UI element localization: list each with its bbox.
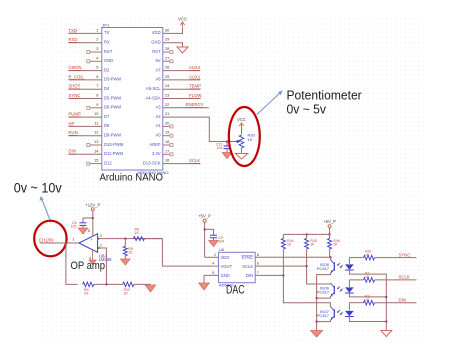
svg-text:D2: D2 <box>104 67 110 72</box>
svg-text:HP: HP <box>68 121 74 126</box>
svg-text:12: 12 <box>94 130 98 135</box>
resistor R46 1K vertical <box>328 234 340 257</box>
DAC pin 5 GND <box>204 270 230 283</box>
wire pin 12 net RUN <box>68 130 121 138</box>
wire pin 21 A2 to potentiometer wiper <box>155 111 234 141</box>
svg-text:16: 16 <box>165 158 169 163</box>
black label Arduino NANO <box>100 173 164 184</box>
wire pin 25 net AUX1 <box>155 74 200 82</box>
net label SCLK right <box>375 275 417 280</box>
wire R5 to DAC VOUT <box>144 239 213 267</box>
resistor R8 1K <box>364 294 375 305</box>
svg-text:+5V_P: +5V_P <box>198 214 211 219</box>
DAC pin 8 SYNC wire <box>242 252 331 260</box>
black label OP amp <box>71 260 106 272</box>
svg-text:R_COIL: R_COIL <box>68 74 84 79</box>
black label DAC <box>226 282 245 296</box>
svg-text:17: 17 <box>165 148 169 153</box>
no-connect pin 19 A0 <box>155 130 173 138</box>
wire pin 2 net RXD <box>68 37 110 45</box>
svg-text:26: 26 <box>165 65 169 70</box>
svg-text:D6-PWM: D6-PWM <box>104 105 121 110</box>
wire pin 16 net SCLK <box>143 158 200 166</box>
pin 3 noninverting input wire <box>98 233 163 239</box>
wire pin 22 net ENERGY <box>155 102 208 110</box>
no-connect pin 27 5V <box>155 55 173 63</box>
junction C21 tee on wiper wire <box>226 141 228 143</box>
svg-text:PC817: PC817 <box>317 313 330 318</box>
no-connect pin 3 RST <box>87 46 113 54</box>
wire LED cathode rail to ground <box>349 270 387 331</box>
svg-text:3: 3 <box>96 46 98 51</box>
wire pin 5 net CMON <box>68 65 110 73</box>
DAC pin 7 DIN wire <box>246 270 283 278</box>
svg-text:1K: 1K <box>310 242 315 246</box>
svg-text:5: 5 <box>212 270 214 275</box>
no-connect pin 18 AREF <box>149 139 173 147</box>
svg-text:1K: 1K <box>365 275 370 279</box>
net label CH1/IN with output wire <box>39 237 79 243</box>
op-amp U8A LM358 <box>79 229 112 262</box>
red ellipse highlight around potentiometer <box>229 107 260 166</box>
svg-text:DIN: DIN <box>68 149 75 154</box>
svg-text:PUMP: PUMP <box>68 112 81 117</box>
black label 0v ~ 10v <box>14 181 62 196</box>
svg-text:DIN: DIN <box>399 297 406 302</box>
resistor R7 1K <box>364 272 375 283</box>
svg-text:D4: D4 <box>104 86 110 91</box>
junction C9 tee on +5V wire <box>204 228 206 230</box>
svg-text:13: 13 <box>94 139 98 144</box>
wire +5V bus <box>283 233 330 235</box>
wire LED3 anode to R8 row <box>349 303 363 311</box>
no-connect pin 13 D10-PWM <box>87 139 124 147</box>
svg-text:DIN: DIN <box>246 273 253 278</box>
wire pin 26 net AUX2 <box>155 65 200 73</box>
svg-text:+: + <box>91 237 94 242</box>
LED of ISO7 <box>345 311 354 317</box>
wire pin 24 net TEMP <box>146 83 201 91</box>
svg-text:8: 8 <box>96 93 98 98</box>
svg-text:1K: 1K <box>287 242 292 246</box>
LED of ISO6 <box>345 287 354 293</box>
svg-text:1: 1 <box>72 237 74 242</box>
DAC pin 6 SCLK wire <box>242 261 306 269</box>
resistor R44 1K vertical <box>281 234 293 275</box>
svg-text:1: 1 <box>214 252 216 257</box>
svg-text:6: 6 <box>257 261 259 266</box>
wire pin 1 net TXD <box>68 27 109 35</box>
svg-text:RX: RX <box>104 40 110 45</box>
wire pin 8 net SYNC <box>68 93 121 101</box>
DAC pin 4 VOUT <box>212 261 232 269</box>
svg-text:3.3V: 3.3V <box>152 151 161 156</box>
svg-text:28: 28 <box>165 46 169 51</box>
svg-text:AREF: AREF <box>149 142 161 147</box>
svg-text:SYNC: SYNC <box>242 255 254 260</box>
IC U6 AD5310 DAC body <box>219 247 256 288</box>
svg-text:D11-PWM: D11-PWM <box>104 151 124 156</box>
ground at pin 29 GND <box>151 37 188 53</box>
wire LED2 anode to R7 row <box>349 280 363 287</box>
svg-text:SHOT: SHOT <box>68 84 80 89</box>
wire pin 7 net SHOT <box>68 83 110 91</box>
svg-text:VDD: VDD <box>152 30 161 35</box>
capacitor C8 105 <box>71 218 93 229</box>
svg-text:2: 2 <box>100 243 102 248</box>
no-connect pin 4 GND <box>87 55 114 63</box>
svg-text:GND: GND <box>104 58 113 63</box>
svg-text:8: 8 <box>88 229 90 233</box>
black label Potentiometer 0v ~ 5v <box>287 88 363 117</box>
ground below R6 <box>121 259 131 265</box>
red circle highlight around CH1/IN <box>34 221 66 257</box>
resistor R41 1K <box>364 249 375 260</box>
svg-text:D9-PWM: D9-PWM <box>104 133 121 138</box>
ground below C21 <box>222 153 232 159</box>
svg-text:RST: RST <box>152 49 161 54</box>
svg-text:19: 19 <box>165 130 169 135</box>
svg-text:D8: D8 <box>104 123 110 128</box>
svg-text:A4-SDA: A4-SDA <box>145 95 160 100</box>
svg-text:7: 7 <box>96 83 98 88</box>
svg-text:105: 105 <box>71 225 77 229</box>
svg-text:D13-SCK: D13-SCK <box>143 160 161 165</box>
svg-text:RUN: RUN <box>68 130 77 135</box>
svg-text:1K: 1K <box>365 298 370 302</box>
svg-text:1K: 1K <box>365 253 370 257</box>
ground LED cathode rail <box>381 331 392 337</box>
svg-text:A2: A2 <box>155 114 161 119</box>
svg-text:5V: 5V <box>155 58 160 63</box>
junction R44 DIN node <box>282 274 284 276</box>
svg-text:D5-PWM: D5-PWM <box>104 95 121 100</box>
optocoupler ISO6 PC817 <box>317 283 343 297</box>
junction R45 SCLK node <box>306 265 308 267</box>
LED of ISO5 <box>345 264 354 270</box>
optocoupler ISO7 PC817 <box>317 307 343 321</box>
svg-text:1K: 1K <box>135 231 140 235</box>
svg-text:A3: A3 <box>155 105 161 110</box>
blue annotation arrow from 0v~10v to CH1/IN <box>39 196 51 223</box>
svg-text:GND: GND <box>221 273 230 278</box>
junction R6 tee on pin3 wire <box>124 238 126 240</box>
svg-text:CMON: CMON <box>68 65 81 70</box>
svg-text:11: 11 <box>94 120 98 125</box>
svg-text:1K: 1K <box>128 251 133 255</box>
svg-text:0v ~ 5v: 0v ~ 5v <box>287 101 327 116</box>
svg-text:OP amp: OP amp <box>71 260 106 272</box>
wire SCLK to ISO6 collector <box>307 266 331 284</box>
svg-text:PC817: PC817 <box>317 266 330 271</box>
resistor R5 1K horizontal <box>133 228 144 241</box>
svg-text:Arduino NANO: Arduino NANO <box>100 173 164 184</box>
svg-text:RXD: RXD <box>68 37 77 42</box>
wire pin 10 net PUMP <box>68 111 110 119</box>
svg-text:PC817: PC817 <box>317 289 330 294</box>
net label DIN right <box>375 297 417 302</box>
svg-text:A0: A0 <box>155 133 161 138</box>
svg-text:27: 27 <box>165 55 169 60</box>
power +5V_P above pull-ups <box>323 219 336 234</box>
svg-text:TEMP: TEMP <box>189 84 201 89</box>
optocoupler ISO5 PC817 <box>317 260 343 274</box>
svg-text:SCLK: SCLK <box>399 275 410 280</box>
wire pin 11 net HP <box>68 120 110 128</box>
svg-text:FLOW: FLOW <box>189 93 202 98</box>
svg-text:1K: 1K <box>333 242 338 246</box>
DAC pin 1 VDD <box>205 252 230 260</box>
svg-text:2K: 2K <box>84 292 89 296</box>
svg-text:A7: A7 <box>155 67 161 72</box>
svg-text:DAC: DAC <box>226 282 245 296</box>
svg-text:A5-SCL: A5-SCL <box>146 86 161 91</box>
svg-text:23: 23 <box>165 93 169 98</box>
blue annotation arrow to Potentiometer text <box>257 90 283 114</box>
svg-text:A6: A6 <box>155 77 161 82</box>
svg-text:D7: D7 <box>104 114 110 119</box>
svg-text:+12V_P: +12V_P <box>85 202 100 207</box>
svg-text:SCLK: SCLK <box>189 158 200 163</box>
ground emitter rail <box>311 331 323 338</box>
svg-text:SYNC: SYNC <box>68 93 80 98</box>
wire pin 14 net DIN <box>68 148 123 156</box>
resistor R9 2K <box>83 282 94 296</box>
pin 2 inverting input wire <box>98 243 107 285</box>
svg-text:D3-PWM: D3-PWM <box>104 77 121 82</box>
wire pin 6 net R_COIL <box>68 74 121 82</box>
ground below R30 <box>235 148 248 159</box>
svg-text:A1: A1 <box>155 123 161 128</box>
svg-text:0v ~ 10v: 0v ~ 10v <box>14 181 62 196</box>
svg-text:6: 6 <box>96 74 98 79</box>
svg-text:8: 8 <box>257 252 259 257</box>
junction R46 SYNC collector node <box>330 256 332 259</box>
resistor R10 2K <box>123 282 134 296</box>
svg-text:SCLK: SCLK <box>242 264 253 269</box>
svg-text:5: 5 <box>96 65 98 70</box>
IC JP1 Arduino NANO body <box>102 22 169 175</box>
power VCC above R30 <box>237 117 246 135</box>
ground below DAC GND pin <box>199 283 210 290</box>
junction feedback tee on output wire <box>65 242 67 244</box>
svg-text:CH1/IN: CH1/IN <box>39 238 53 243</box>
svg-text:U6: U6 <box>219 247 225 252</box>
svg-text:9: 9 <box>96 102 98 107</box>
power +5V_P above DAC <box>198 214 211 258</box>
svg-text:104: 104 <box>218 239 224 243</box>
resistor R6 1K vertical <box>123 239 133 259</box>
svg-text:AUX1: AUX1 <box>189 74 201 79</box>
svg-text:D10-PWM: D10-PWM <box>104 142 124 147</box>
svg-text:2K: 2K <box>124 292 129 296</box>
svg-text:JP1: JP1 <box>102 22 110 27</box>
svg-text:AUX2: AUX2 <box>189 65 201 70</box>
svg-text:VCC: VCC <box>178 17 187 22</box>
svg-text:18: 18 <box>165 139 169 144</box>
svg-text:15: 15 <box>94 158 98 163</box>
capacitor C9 104 <box>205 229 225 243</box>
svg-text:1K: 1K <box>248 137 253 142</box>
no-connect pin 28 RST <box>152 46 173 54</box>
wire R10 to ground <box>134 283 151 285</box>
svg-text:GND: GND <box>151 40 160 45</box>
no-connect pin 15 D12 <box>87 158 113 166</box>
svg-text:SYNC: SYNC <box>399 252 411 257</box>
no-connect pin 9 D6-PWM <box>87 102 122 110</box>
potentiometer R30 1K <box>234 133 256 149</box>
wire DIN to ISO7 collector <box>283 275 330 306</box>
svg-text:2: 2 <box>96 37 98 42</box>
wire pin 23 net FLOW <box>145 93 202 101</box>
svg-text:21: 21 <box>165 111 169 116</box>
op-amp V- pin stub and ground <box>89 250 96 265</box>
ground right of R10 <box>145 285 156 292</box>
svg-text:VDD: VDD <box>221 255 230 260</box>
ground below C8 <box>78 228 88 234</box>
svg-text:22: 22 <box>165 102 169 107</box>
no-connect pin 17 3.3V <box>152 148 173 156</box>
svg-text:29: 29 <box>165 37 169 42</box>
svg-text:3: 3 <box>100 233 102 238</box>
svg-text:TX: TX <box>104 30 110 35</box>
svg-text:VCC: VCC <box>237 117 246 122</box>
resistor R45 1K vertical <box>305 234 317 266</box>
junction R9 R10 pin2 node <box>94 283 123 285</box>
capacitor C21 104 <box>216 142 231 153</box>
svg-text:D12: D12 <box>104 160 112 165</box>
no-connect pin 20 A1 <box>155 120 173 128</box>
svg-text:25: 25 <box>165 74 169 79</box>
junction C8 tee on +12V wire <box>92 217 94 219</box>
net label SYNC right <box>375 252 417 257</box>
svg-text:RST: RST <box>104 49 113 54</box>
wire feedback down from output <box>66 243 78 284</box>
svg-text:1: 1 <box>96 27 98 32</box>
power VCC at pin 30 VDD <box>152 17 187 36</box>
wire emitter rail to ground <box>316 274 331 331</box>
svg-text:7: 7 <box>257 270 259 275</box>
svg-text:ENERGY: ENERGY <box>186 102 204 107</box>
svg-text:TXD: TXD <box>68 28 77 33</box>
svg-text:VOUT: VOUT <box>221 264 233 269</box>
wire LED1 anode to R41 row <box>349 258 363 264</box>
power +12V_P above op-amp <box>85 202 100 236</box>
svg-text:104: 104 <box>217 146 223 150</box>
ground below C9 <box>209 241 219 247</box>
svg-text:+5V_P: +5V_P <box>323 219 336 224</box>
